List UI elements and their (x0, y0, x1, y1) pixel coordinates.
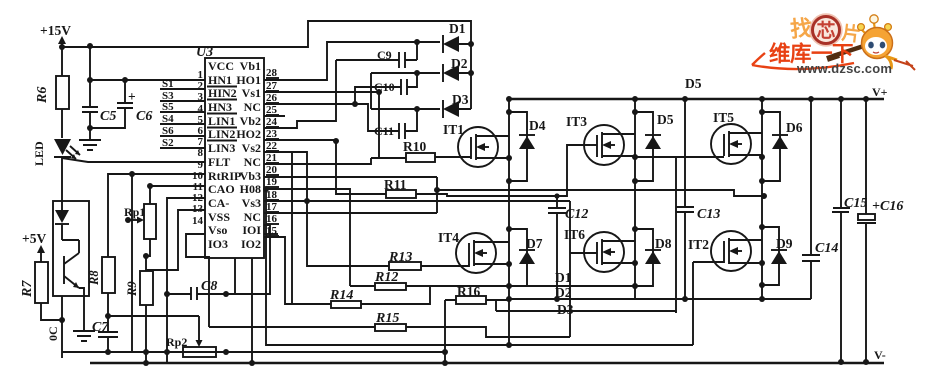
U3 pin number 17 (266, 201, 279, 213)
wire LED to FLT pin8 (62, 158, 205, 162)
junction HO2 x336 (333, 138, 339, 144)
svg-text:IT4: IT4 (438, 230, 459, 245)
junction D1 cathode (468, 41, 474, 47)
junction phase A y229 (506, 226, 512, 232)
wire IT6 gate feed (569, 201, 571, 337)
capacitor C11 (374, 109, 417, 139)
junction C8 right (223, 291, 229, 297)
label IT5 (713, 110, 734, 125)
svg-text:R10: R10 (403, 139, 426, 154)
optocoupler U1 box (53, 201, 89, 296)
junction V+ bus x635 (632, 96, 638, 102)
wire R9 bottom (145, 305, 147, 363)
U3 pin label CA- / Vs3 row 11 (208, 196, 261, 210)
U3 pin number 13 (192, 203, 204, 215)
U3 pin number 1 (198, 69, 204, 81)
svg-text:HN3: HN3 (208, 100, 232, 114)
junction x252 Vminus (249, 360, 255, 366)
optocoupler phototransistor (62, 240, 84, 330)
svg-text:FLT: FLT (208, 155, 230, 169)
wire R6 to LED (61, 109, 63, 138)
wire R11 to IT3 gate (416, 145, 590, 196)
wire IT2 gate feed (692, 262, 694, 345)
junction HO1 R10 (376, 89, 382, 95)
junction VCC wire (87, 77, 93, 83)
junction V- C15 (838, 359, 844, 365)
wire VCC pin1 (90, 79, 205, 81)
junction V+ bus x509 (506, 96, 512, 102)
wire IO2 pin15 to R14 (264, 237, 331, 304)
wire Vs1 pin26 to C11 (264, 104, 399, 131)
wire C5 column (89, 46, 91, 107)
node S4 (160, 113, 205, 125)
node S3 (160, 90, 205, 102)
node V- (874, 348, 886, 362)
svg-text:www.dzsc.com: www.dzsc.com (796, 61, 892, 76)
junction C12 bottom (554, 296, 560, 302)
svg-text:+5V: +5V (22, 231, 46, 246)
wire V+ bus (509, 98, 884, 101)
U3 pin label HN3 / NC row 4 (207, 100, 261, 114)
node D1 net (509, 270, 635, 286)
U3 pin number 4 (198, 103, 204, 115)
ground opto (73, 331, 95, 341)
node S2 (160, 137, 205, 149)
U3 pin number 15 (266, 225, 279, 237)
svg-text:CA-: CA- (208, 196, 229, 210)
U3 pin number 24 (266, 116, 279, 128)
wire R8 bottom (107, 293, 109, 316)
svg-text:0C: 0C (46, 326, 60, 341)
node V+ (872, 85, 888, 99)
svg-text:R9: R9 (125, 281, 139, 297)
svg-text:+: + (128, 89, 136, 104)
label IT2 (688, 237, 709, 252)
U3 pin number 27 (266, 80, 279, 92)
U3 pin number 16 (266, 213, 279, 225)
svg-text:NC: NC (244, 210, 261, 224)
resistor R15 (209, 311, 570, 337)
junction C10 Vs1 (352, 101, 358, 107)
diode D4 (509, 112, 546, 181)
wire RtRIP pin9 to Rp1 (150, 186, 205, 204)
svg-text:CAO: CAO (208, 182, 235, 196)
svg-text:Vb2: Vb2 (240, 114, 261, 128)
junction Rp2 left (164, 349, 170, 355)
capacitor C12 (548, 196, 588, 299)
op-amp U3 package box (196, 45, 264, 258)
U3 pin label Vso / IOI row 13 (208, 223, 261, 237)
wire +5V to R7 (40, 247, 42, 262)
resistor R16 (445, 284, 508, 304)
wire Rp2 left to Vminus (166, 352, 168, 363)
wire FLT drop x132 (131, 174, 133, 352)
wire Vs2 pin22 to R13 (264, 152, 389, 304)
label IT6 (564, 227, 585, 242)
junction Vs2 cross (304, 198, 310, 204)
U3 pin number 11 (193, 181, 203, 193)
transistor IT1 (437, 127, 509, 167)
svg-text:Vs1: Vs1 (242, 86, 261, 100)
wire V- bus (90, 362, 884, 365)
U3 pin label VSS / NC row 12 (208, 210, 261, 224)
svg-text:NC: NC (244, 100, 261, 114)
capacitor C9 (336, 42, 417, 68)
U3 pin number 25 (266, 104, 279, 116)
wire IOI pin16 stub (264, 233, 278, 235)
svg-text:D5: D5 (657, 112, 674, 127)
U3 pin number 6 (198, 125, 204, 137)
node +15V (40, 23, 71, 44)
diode D3 (443, 92, 471, 118)
junction V+ bus x841 (838, 96, 844, 102)
svg-text:C14: C14 (815, 241, 838, 256)
node S5 (160, 101, 205, 113)
svg-text:HN1: HN1 (208, 73, 232, 87)
wire R7 to opto (41, 303, 62, 320)
svg-text:+C16: +C16 (872, 199, 903, 214)
U3 pin number 8 (198, 147, 204, 159)
capacitor C13 (676, 99, 720, 299)
svg-text:Vb3: Vb3 (240, 169, 261, 183)
capacitor C6 (90, 80, 152, 128)
junction bus x90 (87, 43, 93, 49)
transistor IT4 (456, 233, 509, 273)
junction R9 Vminus (143, 360, 149, 366)
wire H08 pin19 line (264, 189, 570, 286)
diode D6 (762, 112, 803, 181)
wire Vb3 pin20 line (264, 177, 437, 213)
svg-text:IT2: IT2 (688, 237, 709, 252)
junction phase C y157 (759, 154, 765, 160)
wire Vb1 pin28 to D1 anode (264, 42, 440, 80)
wire NC pin17 stub (235, 225, 270, 294)
U3 pin number 22 (266, 140, 279, 152)
junction C13 bottom (682, 296, 688, 302)
wire D3 anode line (371, 73, 440, 109)
svg-text:HIN2: HIN2 (208, 86, 237, 100)
svg-text:+15V: +15V (40, 23, 71, 38)
svg-text:C6: C6 (136, 109, 152, 124)
svg-text:D4: D4 (529, 118, 546, 133)
diode D2 (443, 56, 471, 82)
svg-text:R7: R7 (20, 280, 35, 298)
capacitor C5 (82, 107, 116, 140)
svg-text:14: 14 (192, 215, 204, 227)
wire R8 to Rp2 wiper (108, 315, 199, 317)
wire D2 anode line (371, 72, 440, 74)
wire CA- pin11 to R8 (108, 174, 205, 257)
svg-text:LED: LED (32, 141, 46, 166)
transistor IT6 (570, 232, 635, 272)
node S1 (160, 78, 205, 90)
junction phase A y299 (506, 296, 512, 302)
potentiometer Rp2 (166, 316, 226, 357)
wire HO1 pin27 (264, 91, 379, 93)
svg-text:H08: H08 (240, 182, 261, 196)
U3 pin number 28 (266, 67, 279, 79)
junction Rp1 top (147, 183, 153, 189)
svg-text:R6: R6 (35, 87, 50, 104)
wire IT5 gate feed (635, 157, 676, 313)
U3 pin label CAO / H08 row 10 (208, 182, 261, 196)
svg-text:V-: V- (874, 348, 886, 362)
svg-text:IT6: IT6 (564, 227, 585, 242)
junction C11 right (414, 106, 420, 112)
capacitor C15 (832, 99, 867, 361)
junction C7 bottom (105, 349, 111, 355)
svg-text:IO2: IO2 (241, 237, 261, 251)
node D5 bus label (685, 76, 702, 91)
svg-text:VSS: VSS (208, 210, 230, 224)
resistor R7 (20, 262, 48, 303)
svg-text:IT5: IT5 (713, 110, 734, 125)
node D2 net (508, 285, 811, 300)
resistor R11 (384, 177, 416, 198)
resistor R8 (87, 257, 115, 293)
U3 pin number 12 (192, 192, 204, 204)
transistor IT5 (676, 124, 762, 164)
svg-text:IO3: IO3 (208, 237, 228, 251)
wire C8 left drop (167, 198, 205, 352)
diode D8 (635, 229, 672, 286)
svg-text:Vb1: Vb1 (240, 59, 261, 73)
wire phase C column (761, 99, 763, 299)
wire VCC top bus (62, 21, 471, 109)
ground C5 (79, 140, 101, 150)
U3 pin number 14 (192, 215, 204, 227)
svg-text:D2: D2 (555, 285, 572, 300)
svg-text:Rp1: Rp1 (124, 205, 145, 219)
label IT3 (566, 114, 587, 129)
svg-text:R8: R8 (87, 270, 101, 286)
junction phase C y263 (759, 260, 765, 266)
diode D9 (762, 227, 793, 285)
svg-text:D6: D6 (786, 120, 803, 135)
wire R10 gate feed (371, 92, 406, 158)
junction phase A y181 (506, 178, 512, 184)
junction phase A y158 (506, 155, 512, 161)
capacitor C8 (167, 279, 226, 300)
U3 pin label VCC / Vb1 row 1 (208, 59, 261, 73)
svg-text:Vso: Vso (208, 223, 227, 237)
wire phase A column (508, 99, 510, 345)
wire LED cathode (61, 157, 63, 201)
junction D2 cathode (468, 70, 474, 76)
LED (32, 139, 80, 166)
wire NC pin21 stub (264, 158, 371, 164)
wire OC down (61, 296, 63, 358)
resistor R14 (329, 286, 430, 308)
svg-text:D5: D5 (685, 76, 702, 91)
junction R16 bus352 (442, 349, 448, 355)
junction FLT x132 (129, 171, 135, 177)
U3 pin number 9 (198, 159, 204, 171)
svg-text:D7: D7 (526, 236, 543, 251)
svg-text:D1: D1 (449, 21, 466, 36)
U3 pin label LIN2 / HO2 row 6 (207, 127, 261, 141)
wire NC pin25 stub (264, 115, 285, 117)
junction C5 bottom (87, 125, 93, 131)
svg-text:IT3: IT3 (566, 114, 587, 129)
junction R7 opto (59, 317, 65, 323)
junction phase A y286 (506, 283, 512, 289)
junction phase B y229 (632, 226, 638, 232)
transistor IT2 (693, 231, 762, 271)
junction phase C y285 (759, 282, 765, 288)
U3 pin number 10 (192, 170, 204, 182)
svg-text:LIN2: LIN2 (208, 127, 235, 141)
svg-text:HO2: HO2 (236, 127, 261, 141)
junction phase A y264 (506, 261, 512, 267)
junction C9 right tap (414, 39, 420, 45)
svg-text:13: 13 (192, 203, 204, 215)
svg-text:LIN1: LIN1 (208, 114, 235, 128)
svg-text:芯: 芯 (816, 19, 835, 42)
diode D5 (635, 112, 674, 181)
U3 pin label LIN3 / Vs2 row 7 (208, 141, 261, 155)
junction R9 Rp1 (143, 253, 149, 259)
wire CAO pin10 to R9 (146, 210, 205, 271)
junction C10 right (414, 70, 420, 76)
wire HO2 pin23 to R11 (264, 140, 386, 194)
U3 pin label LIN1 / Vb2 row 5 (207, 114, 261, 128)
svg-text:C12: C12 (565, 207, 588, 222)
svg-text:NC: NC (244, 155, 261, 169)
svg-text:RtRIP: RtRIP (208, 169, 241, 183)
junction phase B y263 (632, 260, 638, 266)
junction phase B y157 (632, 154, 638, 160)
junction phase B y286 (632, 283, 638, 289)
junction +15V (59, 44, 65, 50)
node OC (46, 326, 60, 341)
junction C6 top (122, 77, 128, 83)
wire Vs3 pin18 line (264, 190, 764, 213)
junction phase C y112 (759, 109, 765, 115)
wire bottom bus 352 (62, 351, 445, 353)
junction Vb3 pin20 (263, 186, 269, 192)
wire Vb2 pin24 to C9 (264, 60, 336, 128)
svg-text:V+: V+ (872, 85, 888, 99)
junction Vs3 joins Vb3 (434, 187, 440, 193)
resistor R12 (350, 270, 508, 290)
U3 pin number 21 (266, 152, 279, 164)
U3 pin label HN1 / HO1 row 2 (207, 73, 261, 87)
watermark dzsc logo (752, 15, 915, 77)
svg-text:HO1: HO1 (236, 73, 261, 87)
diode D1 (443, 21, 471, 53)
capacitor C10 (355, 73, 417, 104)
potentiometer Rp1 (124, 204, 156, 256)
junction C12 top (554, 193, 559, 198)
U3 pin label RtRIP / Vb3 row 9 (208, 169, 261, 183)
svg-text:Vs3: Vs3 (242, 196, 261, 210)
optocoupler photodiode (55, 201, 69, 240)
junction phase C y227 (759, 224, 765, 230)
junction R9 bus (143, 349, 149, 355)
junction phase A y112 (506, 109, 512, 115)
svg-text:C7: C7 (92, 320, 109, 335)
svg-text:C5: C5 (100, 109, 116, 124)
junction Vs3 phase C (761, 193, 767, 199)
U3 pin number 3 (198, 91, 204, 103)
capacitor C14 (802, 99, 838, 299)
capacitor C16 (857, 99, 903, 361)
U3 pin label IO3 / IO2 row 14 (208, 237, 261, 251)
junction R16 Vminus (442, 360, 448, 366)
junction V+ bus x762 (759, 96, 765, 102)
svg-text:D3: D3 (557, 302, 574, 317)
wire VSS pin12 hook to R15 (186, 234, 209, 327)
node S6 (160, 125, 205, 137)
resistor R9 (125, 271, 153, 305)
U3 pin number 26 (266, 92, 279, 104)
U3 pin number 19 (266, 176, 279, 188)
transistor IT3 (584, 125, 635, 165)
node D3 net (496, 300, 676, 317)
svg-text:D1: D1 (555, 270, 572, 285)
svg-text:C11: C11 (374, 124, 394, 138)
svg-text:IOI: IOI (242, 223, 261, 237)
junction D2 phase C (759, 296, 765, 302)
wire +15V rail (61, 38, 63, 76)
junction phase A gate line (506, 342, 512, 348)
U3 pin number 2 (198, 80, 204, 92)
U3 pin number 5 (198, 114, 204, 126)
node +5V (22, 231, 46, 253)
junction V+ bus x811 (808, 96, 814, 102)
svg-text:LIN3: LIN3 (208, 141, 235, 155)
junction phase C y181 (759, 178, 765, 184)
svg-text:VCC: VCC (208, 59, 234, 73)
U3 pin label FLT / NC row 8 (208, 155, 261, 169)
junction V+ bus x685 (682, 96, 688, 102)
resistor R10 (403, 139, 459, 162)
U3 pin number 7 (198, 136, 204, 148)
U3 pin number 18 (266, 189, 279, 201)
junction phase B y112 (632, 109, 638, 115)
capacitor C7 (92, 316, 118, 352)
svg-text:D8: D8 (655, 236, 672, 251)
junction C8 left (164, 291, 170, 297)
label IT1 (443, 122, 464, 137)
junction V+ bus x866 (863, 96, 869, 102)
svg-text:U3: U3 (196, 45, 213, 60)
svg-text:C13: C13 (697, 207, 720, 222)
U3 pin number 23 (266, 128, 279, 140)
junction phase B y181 (632, 178, 638, 184)
resistor R13 (388, 250, 469, 270)
wire R16 left to Vminus (444, 300, 446, 363)
svg-text:Vs2: Vs2 (242, 141, 261, 155)
junction V- C16 (863, 359, 869, 365)
wire Vb3 drop x265 (266, 189, 693, 345)
U3 pin label HIN2 / Vs1 row 3 (207, 86, 261, 100)
diode D7 (509, 229, 543, 286)
resistor R6 (35, 76, 69, 109)
wire U3 bottom stub x235 (228, 258, 235, 294)
wire phase B column (634, 99, 636, 299)
label IT4 (438, 230, 459, 245)
junction Rp2 right (223, 349, 229, 355)
U3 pin number 20 (266, 164, 279, 176)
wire U3 bottom stub x252 (251, 258, 253, 363)
junction R8 C7 (105, 313, 111, 319)
